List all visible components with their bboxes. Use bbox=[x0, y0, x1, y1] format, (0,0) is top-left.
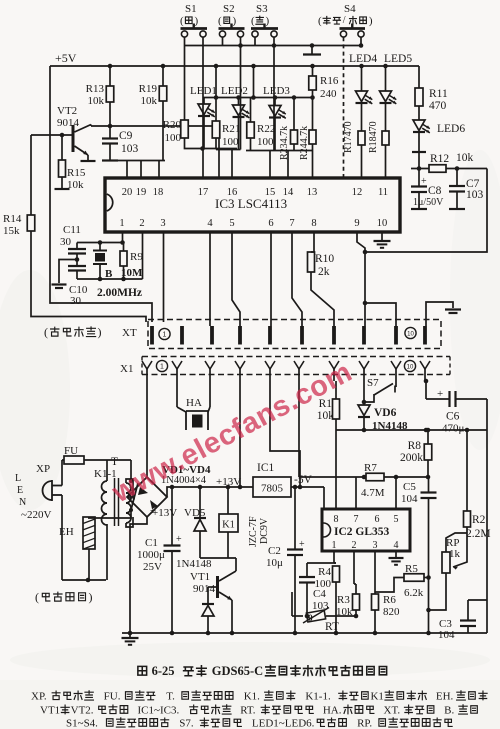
wire LED1 group to pin17 bbox=[203, 148, 238, 150]
svg-text:VT1: VT1 bbox=[190, 571, 210, 583]
svg-text:R22: R22 bbox=[257, 123, 275, 135]
svg-text:S1~S4.: S1~S4. bbox=[66, 717, 98, 729]
svg-text:R234.7k: R234.7k bbox=[279, 126, 290, 160]
svg-text:VT2: VT2 bbox=[57, 105, 77, 117]
wire X1-1 to bridge bbox=[146, 381, 148, 477]
svg-text:R13: R13 bbox=[86, 83, 105, 95]
svg-text:RT.: RT. bbox=[240, 704, 256, 716]
svg-text:R4: R4 bbox=[318, 566, 331, 578]
svg-text:10k: 10k bbox=[317, 410, 335, 422]
svg-text:(: ( bbox=[251, 15, 255, 27]
svg-text:C2: C2 bbox=[268, 545, 281, 557]
svg-text:820: 820 bbox=[383, 606, 400, 618]
svg-text:7: 7 bbox=[354, 514, 359, 525]
svg-text:9: 9 bbox=[354, 218, 359, 229]
svg-text:C1: C1 bbox=[145, 537, 158, 549]
wire xt10 ground bbox=[426, 302, 453, 326]
svg-text:~220V: ~220V bbox=[21, 509, 51, 521]
svg-text:LED3: LED3 bbox=[263, 85, 290, 97]
wire VT2 collector to IC3 bbox=[91, 126, 219, 178]
svg-text:R21: R21 bbox=[222, 123, 240, 135]
svg-text:-5V: -5V bbox=[294, 474, 313, 486]
svg-text:R16: R16 bbox=[320, 75, 339, 87]
svg-text:R11: R11 bbox=[429, 88, 448, 100]
svg-text:LED2: LED2 bbox=[221, 85, 248, 97]
svg-text:C9: C9 bbox=[119, 130, 133, 142]
svg-text:103: 103 bbox=[121, 143, 139, 155]
wire keyboard common bbox=[103, 160, 165, 162]
wire left +5V drop bbox=[50, 66, 152, 322]
svg-text:2k: 2k bbox=[318, 266, 330, 278]
svg-text:470: 470 bbox=[429, 100, 447, 112]
wire mains bottom bbox=[62, 579, 106, 581]
svg-text:103: 103 bbox=[466, 189, 484, 201]
svg-text:FU.: FU. bbox=[104, 690, 121, 702]
svg-text:C4: C4 bbox=[313, 588, 326, 600]
svg-text:5: 5 bbox=[394, 514, 399, 525]
svg-text:30: 30 bbox=[60, 236, 72, 248]
relay K1 bbox=[226, 485, 231, 490]
wire switch common row bbox=[185, 45, 362, 47]
svg-text:VT1: VT1 bbox=[40, 704, 60, 716]
terminal strip XT bbox=[148, 320, 441, 349]
svg-text:θ: θ bbox=[308, 613, 313, 623]
svg-text:K1.: K1. bbox=[244, 690, 260, 702]
wire LED3 group bbox=[246, 150, 313, 152]
svg-text:LED4: LED4 bbox=[349, 53, 377, 65]
svg-text:6-25: 6-25 bbox=[152, 664, 175, 678]
svg-text:N: N bbox=[19, 497, 26, 508]
svg-text:C6: C6 bbox=[446, 411, 460, 423]
svg-text:RT: RT bbox=[325, 621, 339, 633]
svg-text:+: + bbox=[176, 534, 182, 545]
pin4 ground bbox=[395, 551, 397, 557]
svg-text:R10: R10 bbox=[315, 253, 334, 265]
svg-text:+13V: +13V bbox=[152, 507, 177, 519]
svg-text:T: T bbox=[111, 456, 118, 468]
svg-text:200k: 200k bbox=[400, 452, 423, 464]
svg-text:K1: K1 bbox=[222, 520, 235, 531]
diode base VT1 bbox=[208, 586, 216, 588]
svg-text:S3: S3 bbox=[256, 3, 268, 15]
svg-text:20: 20 bbox=[122, 187, 133, 198]
svg-text:12: 12 bbox=[352, 187, 363, 198]
wire crystal top bbox=[122, 232, 124, 243]
svg-text:6.2k: 6.2k bbox=[404, 587, 424, 599]
ground rail bottom bbox=[122, 632, 487, 634]
svg-text:2.00MHz: 2.00MHz bbox=[97, 287, 142, 299]
svg-text:1N4148: 1N4148 bbox=[176, 558, 212, 570]
svg-text:R2: R2 bbox=[472, 514, 486, 526]
svg-text:10: 10 bbox=[407, 365, 414, 371]
wire bridge to +13V rail bbox=[167, 487, 253, 497]
wire pin6 to XT bbox=[270, 232, 272, 326]
svg-text:VD6: VD6 bbox=[374, 407, 397, 419]
svg-text:XT: XT bbox=[122, 327, 137, 339]
svg-text:9014: 9014 bbox=[193, 583, 216, 595]
svg-text:HA: HA bbox=[186, 397, 202, 409]
svg-text:IC1~IC3.: IC1~IC3. bbox=[138, 704, 180, 716]
svg-text:100: 100 bbox=[257, 136, 274, 148]
svg-text:1μ/50V: 1μ/50V bbox=[413, 197, 444, 208]
svg-text:): ) bbox=[195, 15, 199, 27]
svg-text:IC1: IC1 bbox=[257, 462, 275, 474]
svg-text:(: ( bbox=[35, 590, 39, 604]
svg-text:K1-1.: K1-1. bbox=[305, 690, 331, 702]
wire X1-6 down bbox=[298, 381, 300, 477]
svg-text:R17470: R17470 bbox=[343, 121, 354, 153]
svg-text:10k: 10k bbox=[67, 179, 84, 191]
svg-text:IC3 LSC4113: IC3 LSC4113 bbox=[215, 196, 287, 211]
svg-text:EH: EH bbox=[59, 526, 74, 538]
svg-text:R9: R9 bbox=[130, 251, 143, 263]
wire bridge bottom to ground rail bbox=[130, 517, 147, 633]
node switch common stub bbox=[311, 46, 313, 54]
svg-text:EH.: EH. bbox=[436, 690, 454, 702]
svg-text:B.: B. bbox=[444, 704, 454, 716]
svg-text:DC9V: DC9V bbox=[259, 517, 270, 544]
svg-text:L: L bbox=[15, 473, 21, 484]
svg-text:HA.: HA. bbox=[323, 704, 342, 716]
wire crystal bottom bbox=[77, 278, 143, 280]
wire K1/VD5 node bbox=[200, 557, 236, 559]
svg-text:LED5: LED5 bbox=[384, 53, 412, 65]
svg-text:19: 19 bbox=[136, 187, 147, 198]
svg-text:17: 17 bbox=[198, 187, 209, 198]
svg-text:7805: 7805 bbox=[261, 483, 284, 495]
wire S4 dashed drop bbox=[343, 37, 345, 178]
svg-text:7: 7 bbox=[289, 218, 294, 229]
svg-text:LED6: LED6 bbox=[437, 123, 465, 135]
svg-text:): ) bbox=[233, 15, 237, 27]
svg-text:9014: 9014 bbox=[57, 117, 80, 129]
svg-text:RP.: RP. bbox=[357, 717, 372, 729]
svg-text:10k: 10k bbox=[456, 152, 474, 164]
wire key sense drops bbox=[202, 37, 204, 148]
wire to IC2 pin8 col bbox=[323, 487, 325, 509]
svg-text:R19: R19 bbox=[139, 83, 158, 95]
svg-text:(: ( bbox=[180, 15, 184, 27]
caption bbox=[138, 666, 147, 675]
svg-text:IC2 GL353: IC2 GL353 bbox=[334, 526, 390, 538]
wire pin5 to XT bbox=[232, 232, 240, 326]
svg-text:R14: R14 bbox=[3, 213, 22, 225]
svg-text:R3: R3 bbox=[337, 594, 350, 606]
wire pins 20 19 bbox=[126, 161, 128, 179]
svg-text:13: 13 bbox=[307, 187, 318, 198]
svg-text:1: 1 bbox=[119, 218, 124, 229]
svg-text:10μ: 10μ bbox=[266, 557, 283, 569]
svg-text:6: 6 bbox=[268, 218, 273, 229]
svg-text:1: 1 bbox=[332, 540, 337, 551]
svg-text:100: 100 bbox=[222, 136, 239, 148]
svg-text:): ) bbox=[369, 15, 373, 27]
svg-text:3: 3 bbox=[373, 540, 378, 551]
svg-text:25V: 25V bbox=[143, 561, 162, 573]
svg-text:): ) bbox=[89, 590, 93, 604]
svg-text:(: ( bbox=[44, 325, 48, 339]
svg-text:18: 18 bbox=[153, 187, 164, 198]
svg-text:): ) bbox=[266, 15, 270, 27]
svg-text:): ) bbox=[98, 325, 102, 339]
svg-text:+5V: +5V bbox=[55, 51, 77, 65]
svg-text:2: 2 bbox=[139, 218, 144, 229]
svg-text:(: ( bbox=[218, 15, 222, 27]
svg-text:R8: R8 bbox=[408, 440, 422, 452]
wire xt9 branch bbox=[363, 301, 368, 306]
wire feedback right bbox=[365, 169, 487, 253]
wire right bus down bbox=[486, 399, 488, 633]
svg-text:VT2.: VT2. bbox=[71, 704, 94, 716]
svg-text:+: + bbox=[421, 176, 427, 187]
svg-text:JZC-7F: JZC-7F bbox=[248, 516, 259, 547]
svg-text:LED1~LED6.: LED1~LED6. bbox=[252, 717, 315, 729]
wire X1-4 down bbox=[239, 381, 241, 487]
svg-text:+: + bbox=[299, 539, 305, 550]
svg-text:K1: K1 bbox=[370, 690, 383, 702]
svg-text:3: 3 bbox=[160, 218, 165, 229]
svg-text:S1: S1 bbox=[185, 3, 197, 15]
svg-text:10k: 10k bbox=[88, 95, 105, 107]
svg-text:S7: S7 bbox=[367, 377, 379, 389]
svg-text:/: / bbox=[343, 15, 346, 26]
svg-text:104: 104 bbox=[401, 493, 418, 505]
wire pin4 to XT bbox=[209, 232, 211, 326]
svg-text:GDS65-C: GDS65-C bbox=[212, 664, 263, 678]
svg-text:470μ: 470μ bbox=[442, 423, 465, 435]
svg-text:2.2M: 2.2M bbox=[466, 528, 491, 540]
svg-text:E: E bbox=[17, 485, 23, 496]
svg-text:R12: R12 bbox=[430, 153, 449, 165]
svg-text:LED1: LED1 bbox=[190, 85, 217, 97]
svg-text:4.7M: 4.7M bbox=[361, 487, 385, 499]
wire pin3 down bbox=[163, 232, 165, 322]
svg-text:104: 104 bbox=[438, 629, 455, 641]
pin 10 ground bbox=[381, 232, 383, 240]
ground symbol bbox=[129, 633, 131, 637]
svg-text:(: ( bbox=[318, 15, 322, 27]
svg-text:30: 30 bbox=[70, 295, 82, 307]
wire pin7 to XT bbox=[292, 232, 302, 326]
svg-text:6: 6 bbox=[375, 514, 380, 525]
svg-text:8: 8 bbox=[334, 514, 339, 525]
svg-text:11: 11 bbox=[378, 187, 388, 198]
wire mid horizontal bbox=[336, 429, 487, 431]
svg-text:5: 5 bbox=[229, 218, 234, 229]
svg-text:1: 1 bbox=[163, 332, 167, 339]
svg-text:2: 2 bbox=[352, 540, 357, 551]
svg-text:C11: C11 bbox=[63, 224, 81, 236]
svg-text:C5: C5 bbox=[403, 481, 416, 493]
svg-text:R18470: R18470 bbox=[368, 121, 379, 153]
op-amp IC2 bbox=[322, 509, 410, 551]
svg-text:S7.: S7. bbox=[179, 717, 194, 729]
ground crystal bbox=[75, 257, 80, 262]
svg-text:S2: S2 bbox=[223, 3, 235, 15]
svg-text:XT.: XT. bbox=[384, 704, 401, 716]
svg-text:XP.: XP. bbox=[31, 690, 47, 702]
svg-text:1: 1 bbox=[160, 364, 164, 371]
svg-text:10: 10 bbox=[377, 218, 388, 229]
svg-text:100: 100 bbox=[165, 132, 182, 144]
wire X1-5 down bbox=[270, 381, 300, 487]
svg-text:15: 15 bbox=[265, 187, 276, 198]
svg-text:4: 4 bbox=[394, 540, 399, 551]
svg-text:X1: X1 bbox=[120, 363, 133, 375]
svg-text:14: 14 bbox=[283, 187, 294, 198]
svg-text:S4: S4 bbox=[344, 3, 356, 15]
svg-text:1000μ: 1000μ bbox=[137, 549, 165, 561]
wire C5 col to ground rail bbox=[428, 577, 430, 633]
svg-text:R6: R6 bbox=[383, 594, 396, 606]
svg-text:240: 240 bbox=[320, 88, 337, 100]
svg-text:10: 10 bbox=[407, 332, 414, 338]
svg-text:8: 8 bbox=[311, 218, 316, 229]
svg-text:R20: R20 bbox=[163, 119, 182, 131]
svg-text:C8: C8 bbox=[428, 185, 442, 197]
op-amp U-IC3 box bbox=[105, 178, 400, 232]
svg-text:4: 4 bbox=[207, 218, 213, 229]
svg-text:R15: R15 bbox=[67, 167, 86, 179]
svg-text:XP: XP bbox=[36, 463, 50, 475]
svg-text:T.: T. bbox=[166, 690, 175, 702]
svg-text:15k: 15k bbox=[3, 225, 20, 237]
svg-text:10k: 10k bbox=[141, 95, 158, 107]
pin 9 wire down bbox=[357, 232, 365, 326]
svg-text:16: 16 bbox=[227, 187, 238, 198]
svg-text:R7: R7 bbox=[364, 462, 377, 474]
